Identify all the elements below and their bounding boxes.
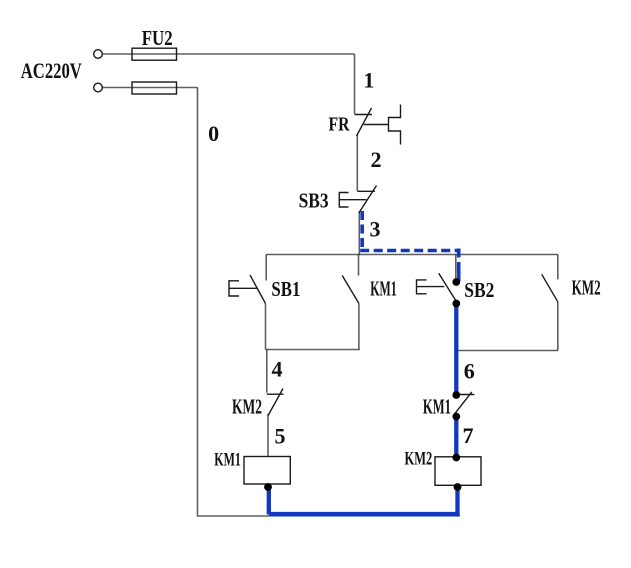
svg-text:4: 4 [272,357,283,382]
pushbutton SB2 top wire [455,255,457,282]
contact KM2 NO bottom wire [557,302,559,351]
svg-text:KM1: KM1 [214,450,241,471]
FR heater element [389,105,401,145]
pushbutton SB1 top wire [265,255,267,281]
terminal circle L [94,50,103,59]
contact KM1 NO blade [342,276,359,304]
wire 2 [356,135,358,192]
highlight solid into SB2 node [457,267,461,282]
pushbutton SB1 bottom wire [265,304,267,350]
wire 6 under [455,304,457,352]
svg-text:FU2: FU2 [142,26,173,50]
svg-text:SB1: SB1 [271,277,300,301]
wire 3 [358,212,360,255]
pushbutton SB3 actuator [339,193,348,208]
wire top phase [103,53,355,55]
pushbutton SB1 actuator rod [229,287,258,289]
highlight dashed right vertical [457,249,461,269]
node dot KM1 coil bottom [264,483,272,491]
pushbutton SB2 blade [439,273,458,303]
wire neutral [103,87,198,89]
highlight bottom return [269,512,460,517]
svg-text:SB3: SB3 [299,188,329,212]
svg-text:SB2: SB2 [464,278,494,302]
wire 4 [266,350,268,393]
highlight KM2 coil bottom [455,487,459,517]
svg-text:1: 1 [363,67,374,92]
svg-text:3: 3 [370,217,381,242]
node dot KM1 NC top [452,391,460,399]
pushbutton SB3 fixed tick [357,190,375,192]
node bus top horizontal [266,254,558,256]
node dot KM2 coil bottom [454,483,462,491]
svg-text:KM2: KM2 [405,448,433,469]
contact KM1 NO top wire [358,255,360,276]
svg-text:5: 5 [275,423,286,448]
contact KM2 NC tick [267,393,284,395]
highlight wire 3 dashed vertical [360,211,364,251]
fuse FU2 element b [132,82,177,94]
FR heater link [364,124,389,126]
wire right branch join [456,350,558,352]
contact KM2 NC blade [268,389,283,416]
svg-text:6: 6 [464,358,475,383]
contact KM1 NC blade [453,392,472,416]
pushbutton SB1 blade [250,275,266,304]
svg-text:KM1: KM1 [423,394,451,418]
contact KM1 NO bottom wire [358,303,360,349]
wire 1 vertical [354,54,356,114]
svg-text:FR: FR [329,113,350,135]
thermal contact FR blade [357,108,372,136]
highlight KM1 coil bottom [267,487,271,515]
coil KM2 [435,457,481,486]
node dot SB2 bottom [452,300,460,308]
svg-text:KM2: KM2 [232,395,262,419]
highlight wire 7 [454,417,458,458]
contact KM2 NO top wire [557,255,559,280]
fuse FU2 element a [132,48,177,60]
node dot KM2 coil top [452,454,460,462]
svg-text:KM2: KM2 [572,276,601,300]
svg-text:0: 0 [208,121,219,146]
node dot SB2 top [452,278,460,286]
pushbutton SB1 actuator [229,281,239,296]
svg-text:2: 2 [371,147,382,172]
wire 5 [267,414,269,457]
pushbutton SB2 actuator [417,280,427,294]
thermal contact FR fixed tick [355,114,373,116]
svg-text:KM1: KM1 [370,276,397,300]
terminal circle N [94,83,103,92]
highlight SB2 to wire 6 [454,304,458,395]
svg-text:7: 7 [463,423,474,448]
pushbutton SB3 actuator rod [339,199,366,201]
svg-text:AC220V: AC220V [21,58,82,83]
wire left branch join [266,349,360,351]
contact KM2 NO blade [542,274,558,302]
node dot KM1 NC bottom [452,413,460,421]
highlight dashed horizontal [360,249,459,253]
contact KM1 NC tick [457,394,474,396]
wire 0 left vertical [198,88,270,517]
pushbutton SB3 blade [359,186,377,214]
pushbutton SB2 actuator rod [417,286,445,288]
coil KM1 [244,457,290,485]
